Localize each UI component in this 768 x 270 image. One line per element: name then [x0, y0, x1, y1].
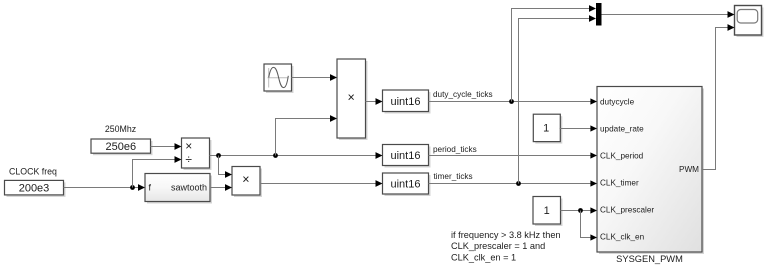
svg-text:250Mhz: 250Mhz — [105, 124, 136, 134]
svg-text:period_ticks: period_ticks — [433, 145, 477, 154]
svg-text:CLK_prescaler: CLK_prescaler — [600, 205, 654, 214]
svg-text:×: × — [242, 173, 249, 187]
uint16 convert block 1 — [383, 90, 431, 114]
subsystem SYSGEN_PWM — [597, 87, 704, 255]
svg-text:if frequency > 3.8 kHz then: if frequency > 3.8 kHz then — [451, 230, 561, 240]
svg-text:CLK_clk_en = 1: CLK_clk_en = 1 — [451, 252, 516, 262]
wire tall product to uint16 duty — [366, 101, 378, 103]
annotation text — [451, 230, 561, 263]
svg-text:1: 1 — [543, 123, 549, 135]
wire branch down to product2 input1 — [219, 156, 227, 175]
svg-text:1: 1 — [544, 205, 550, 217]
divide block x/÷ — [182, 138, 212, 170]
junction node 2 on divide out — [273, 153, 278, 158]
svg-text:timer_ticks: timer_ticks — [434, 172, 473, 181]
svg-text:200e3: 200e3 — [19, 183, 50, 195]
svg-text:CLK_prescaler = 1 and: CLK_prescaler = 1 and — [451, 241, 545, 251]
wire branch to divide input — [133, 160, 176, 188]
constant block 200e3 — [5, 180, 66, 197]
wire PWM out to scope input2 — [702, 28, 729, 170]
sawtooth block — [145, 174, 212, 204]
svg-text:250e6: 250e6 — [106, 141, 137, 153]
svg-text:uint16: uint16 — [391, 150, 421, 162]
mux block — [596, 3, 602, 26]
junction node prescaler — [578, 208, 583, 213]
wire mux to scope input1 — [602, 14, 730, 16]
uint16 convert block 3 — [383, 173, 431, 196]
svg-text:uint16: uint16 — [391, 179, 421, 191]
wire sawtooth to product2 input2 — [210, 187, 227, 189]
scope block — [735, 6, 764, 38]
wire prescaler branch to CLK_clk_en port — [581, 211, 592, 238]
uint16 convert block 2 — [383, 145, 431, 168]
svg-text:CLOCK freq: CLOCK freq — [9, 167, 57, 177]
svg-text:CLK_timer: CLK_timer — [600, 178, 639, 187]
junction node at clock wire — [130, 185, 135, 190]
svg-text:duty_cycle_ticks: duty_cycle_ticks — [433, 90, 493, 99]
wire branch up to tall product input2 — [276, 119, 332, 156]
wire 200e3 to sawtooth — [64, 187, 141, 189]
svg-text:CLK_period: CLK_period — [600, 151, 644, 160]
svg-text:CLK_clk_en: CLK_clk_en — [600, 232, 645, 241]
wire product2 to uint16 timer — [260, 183, 377, 185]
svg-text:×: × — [185, 139, 192, 153]
wire uint16 timer to CLK_timer port — [429, 183, 592, 185]
junction node duty — [509, 99, 514, 104]
svg-text:SYSGEN_PWM: SYSGEN_PWM — [616, 254, 683, 264]
svg-text:×: × — [348, 91, 355, 105]
product block 2 — [232, 167, 262, 198]
wire constant1 to update_rate port — [560, 128, 592, 130]
wire constant1b to CLK_prescaler port — [561, 210, 592, 212]
constant block 1 (CLK_prescaler) — [533, 197, 563, 227]
constant block 1 (update_rate) — [533, 114, 562, 143]
wire sine to tall product input1 — [292, 77, 332, 79]
svg-text:update_rate: update_rate — [600, 124, 644, 133]
wire 250e6 to divide input — [151, 146, 176, 148]
wire divide out to uint16 period — [210, 155, 378, 157]
svg-text:sawtooth: sawtooth — [171, 183, 207, 193]
svg-text:PWM: PWM — [679, 165, 699, 174]
wire timer branch up to mux input2 — [519, 19, 591, 184]
tall product block — [337, 59, 368, 140]
junction node 1 on divide out — [216, 153, 221, 158]
wire uint16 duty to dutycycle port — [429, 101, 592, 103]
sine wave source block — [264, 64, 294, 93]
junction node timer — [516, 181, 521, 186]
svg-text:uint16: uint16 — [391, 96, 421, 108]
svg-text:÷: ÷ — [185, 152, 192, 166]
wire duty branch up to mux input1 — [512, 9, 591, 102]
wire uint16 period to CLK_period port — [429, 155, 592, 157]
constant block 250e6 — [91, 139, 153, 155]
svg-text:dutycycle: dutycycle — [600, 97, 635, 106]
